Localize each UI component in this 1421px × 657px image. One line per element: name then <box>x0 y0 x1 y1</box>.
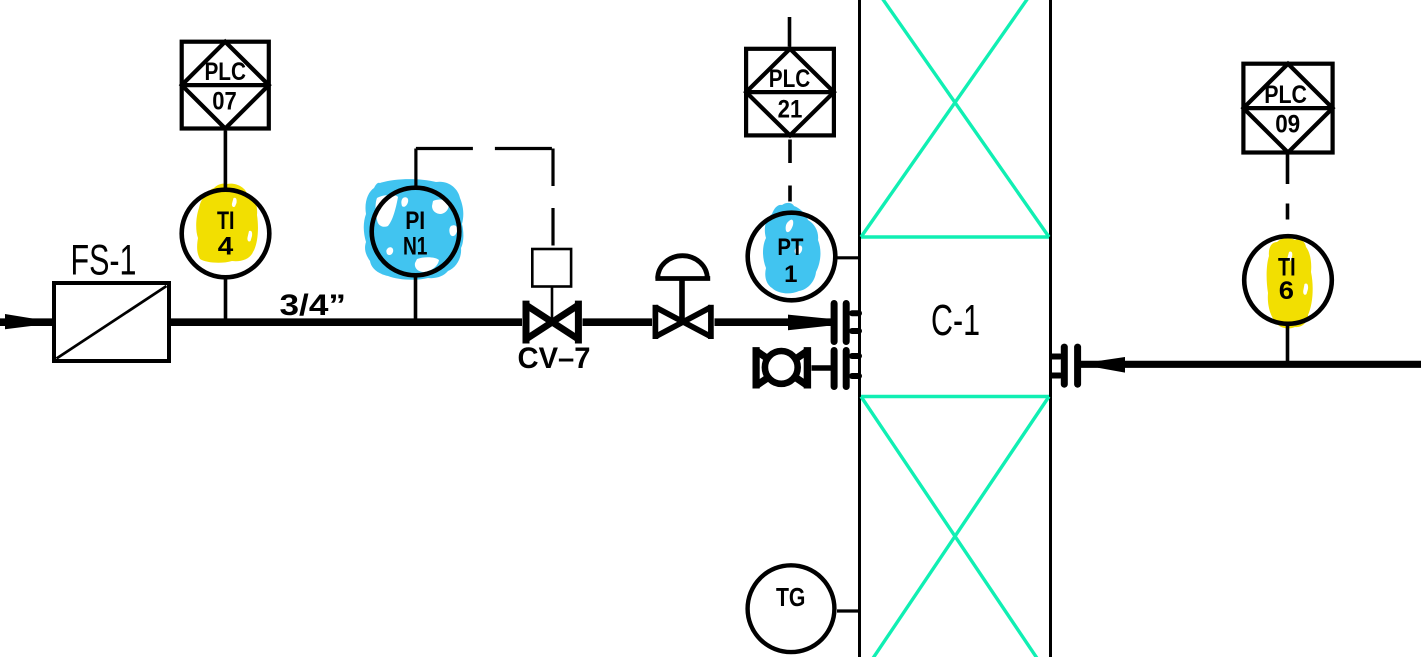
svg-text:PLC: PLC <box>769 65 811 93</box>
svg-text:C-1: C-1 <box>931 296 980 345</box>
svg-text:N1: N1 <box>403 233 428 261</box>
svg-text:TI: TI <box>217 207 235 235</box>
svg-text:6: 6 <box>1279 277 1294 305</box>
svg-text:FS-1: FS-1 <box>71 238 137 285</box>
svg-text:PLC: PLC <box>204 58 246 86</box>
svg-text:TG: TG <box>776 582 806 612</box>
svg-text:CV–7: CV–7 <box>518 342 591 375</box>
svg-text:PT: PT <box>777 234 803 261</box>
svg-text:4: 4 <box>218 233 234 261</box>
svg-text:PI: PI <box>405 207 425 235</box>
svg-text:3/4”: 3/4” <box>280 289 347 322</box>
svg-text:07: 07 <box>212 88 237 116</box>
svg-text:PLC: PLC <box>1264 81 1307 109</box>
svg-text:1: 1 <box>784 261 797 288</box>
svg-text:09: 09 <box>1275 111 1300 139</box>
svg-text:21: 21 <box>778 96 803 124</box>
